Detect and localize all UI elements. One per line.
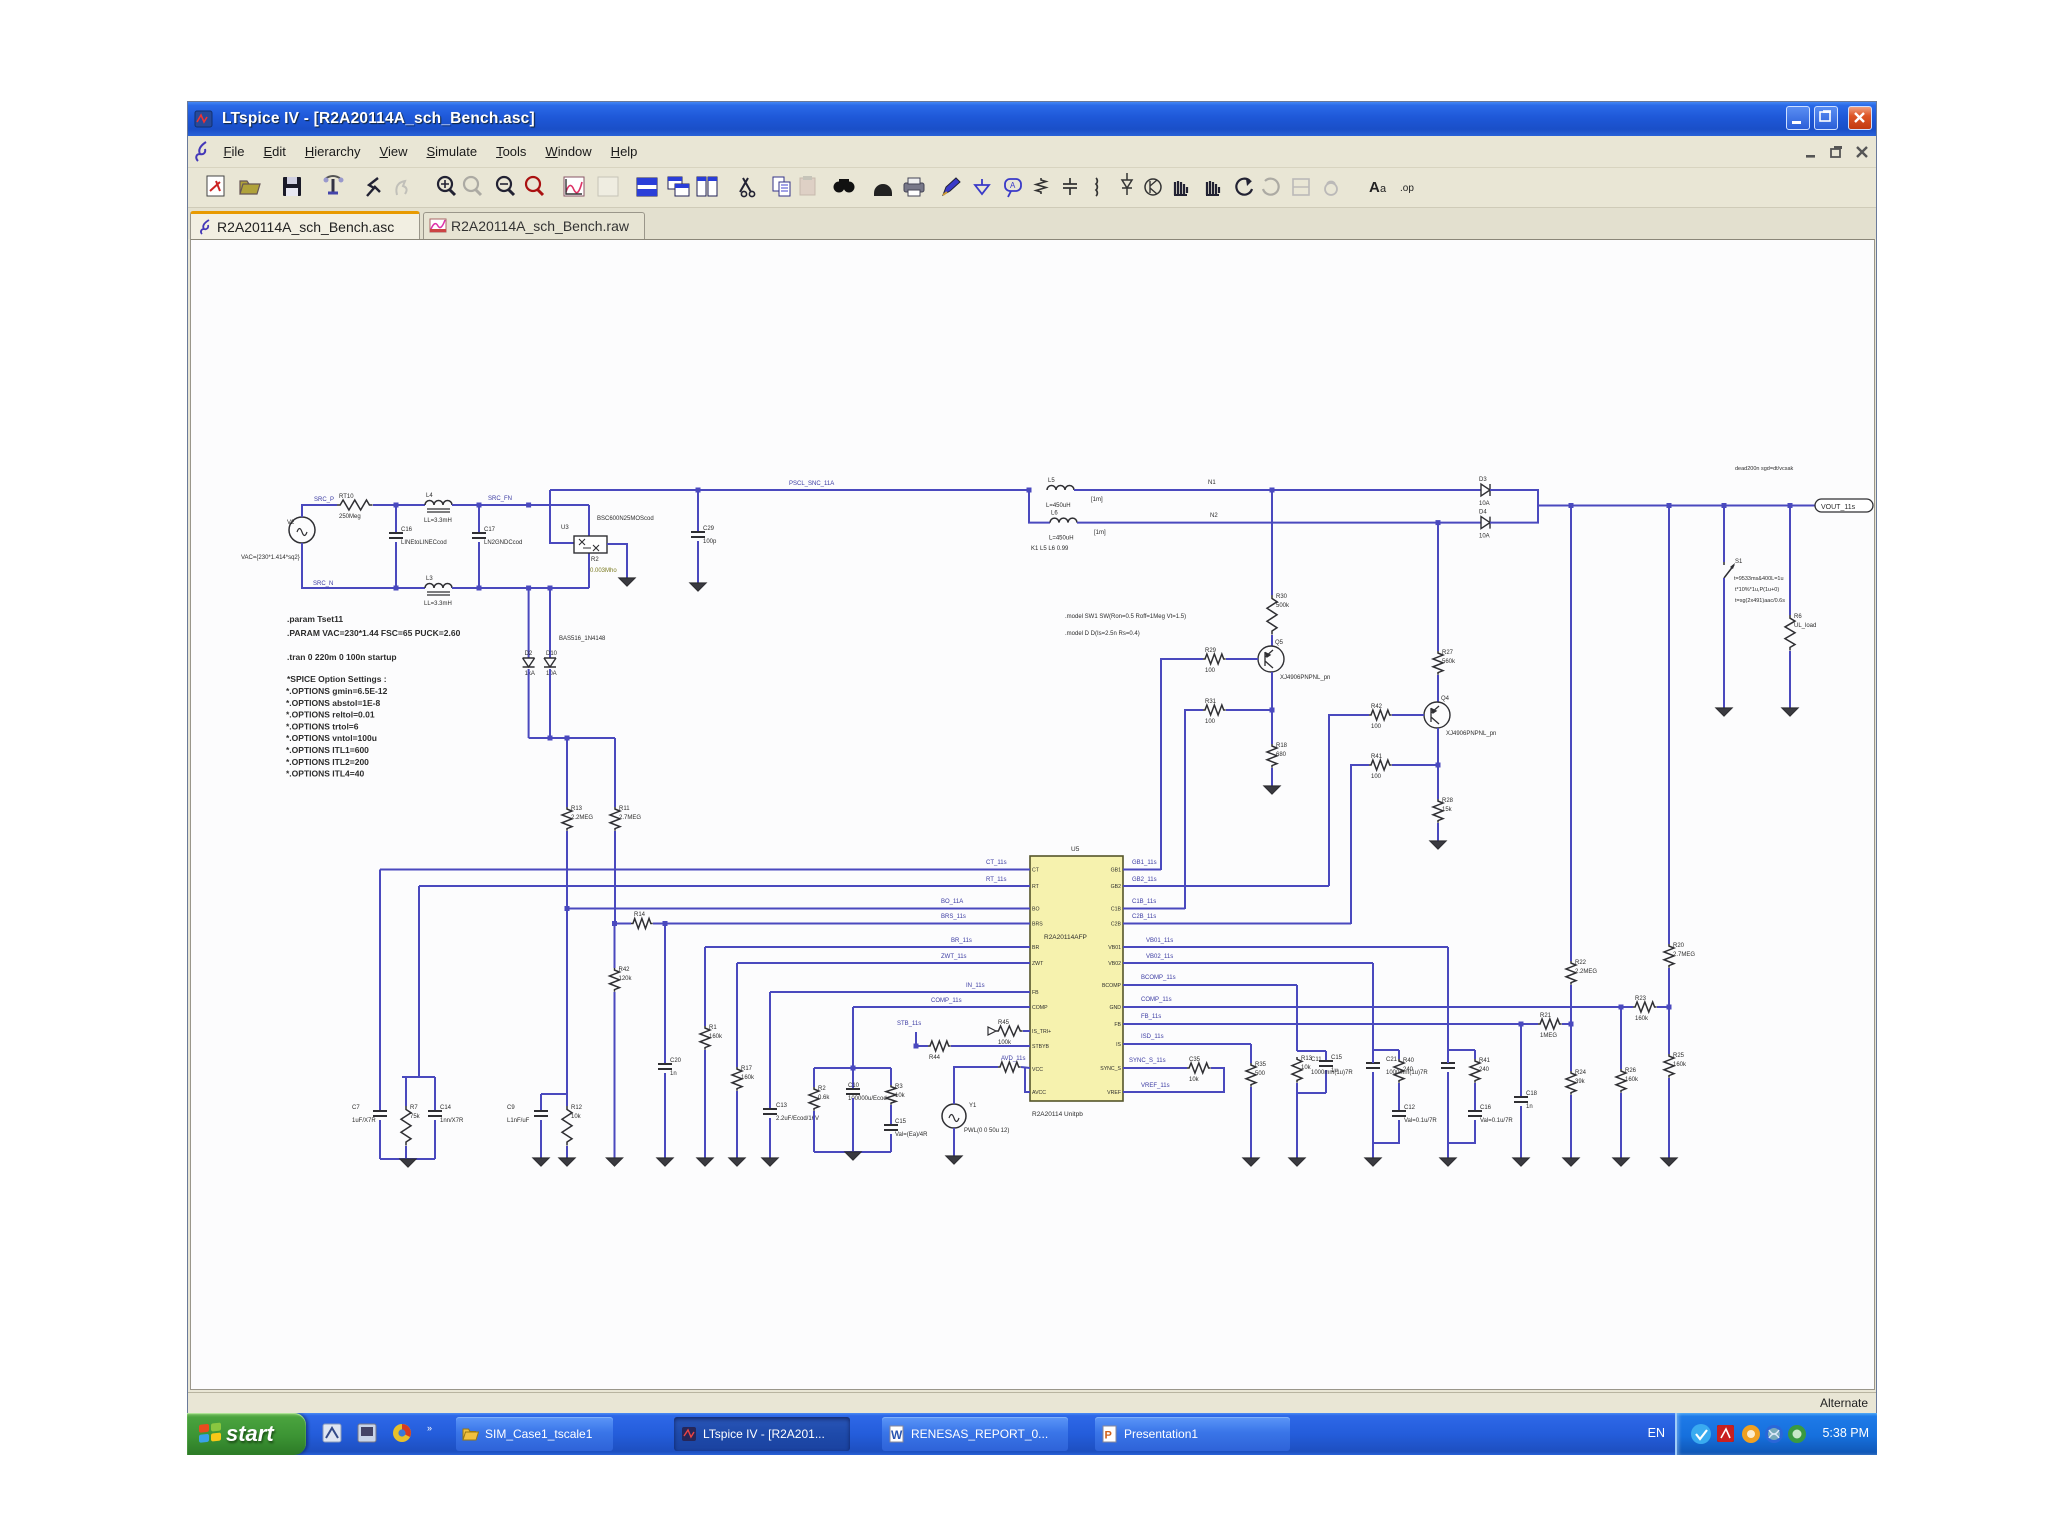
- capacitor C18: [1514, 1091, 1538, 1110]
- resistor R14: [631, 919, 653, 929]
- svg-text:*.OPTIONS gmin=6.5E-12: *.OPTIONS gmin=6.5E-12: [286, 686, 388, 696]
- wire R35 up: [1250, 1044, 1252, 1063]
- wire C7 riser: [379, 870, 381, 1112]
- node node FN: [526, 503, 531, 508]
- node n1668: [1667, 503, 1672, 508]
- wire RT row: [419, 885, 1030, 887]
- wire R30 up: [1271, 490, 1273, 595]
- resistor R32: [809, 1086, 830, 1111]
- wire S1 up: [1723, 506, 1725, 563]
- svg-text:COMP: COMP: [1032, 1005, 1048, 1011]
- svg-text:R27: R27: [1442, 650, 1454, 656]
- wire c11 dn: [1372, 1072, 1374, 1158]
- wire BRS b: [653, 923, 1030, 925]
- wire R45b up: [890, 1068, 892, 1085]
- node C16 bottom node: [394, 586, 399, 591]
- svg-text:2.7MEG: 2.7MEG: [619, 815, 641, 821]
- svg-text:C2B_11s: C2B_11s: [1132, 914, 1156, 920]
- svg-text:C13: C13: [776, 1103, 788, 1109]
- ground: [845, 1152, 861, 1160]
- svg-text:R42: R42: [619, 967, 631, 973]
- wire BR row: [705, 946, 1030, 948]
- capacitor C7: [352, 1105, 387, 1124]
- node join2: [565, 736, 570, 741]
- svg-text:2.2MEG: 2.2MEG: [571, 815, 593, 821]
- wire C14 dn: [434, 1120, 436, 1159]
- svg-text:1kA: 1kA: [525, 671, 535, 677]
- svg-text:D10: D10: [546, 651, 558, 657]
- wire gC top: [1448, 1049, 1475, 1051]
- svg-text:.model SW1 SW(Ron=0.5 Roff=1Me: .model SW1 SW(Ron=0.5 Roff=1Meg Vt=1.5): [1065, 614, 1186, 620]
- wire C15 dn2: [890, 1134, 892, 1152]
- svg-text:BRS_11s: BRS_11s: [941, 914, 966, 920]
- taskbar button SIM_Case1_tscale1: [456, 1417, 613, 1451]
- resistor R21: [1538, 1013, 1562, 1039]
- wire GB1 riser: [1161, 659, 1203, 870]
- resistor RL: [1785, 614, 1816, 651]
- wire Q5 emitter dn: [1271, 672, 1273, 710]
- svg-text:SRC_N: SRC_N: [313, 581, 333, 587]
- wire C20 dn: [664, 1073, 666, 1158]
- node R30 node: [1270, 488, 1275, 493]
- svg-text:W: W: [891, 1428, 903, 1442]
- ground: [946, 1156, 962, 1164]
- svg-text:680: 680: [1276, 752, 1287, 758]
- svg-text:STBYB: STBYB: [1032, 1044, 1050, 1050]
- wire to R28: [1437, 765, 1439, 799]
- wire c12 dn: [1373, 1120, 1399, 1143]
- wire IS row: [1123, 1043, 1251, 1045]
- capacitor C14: [428, 1105, 464, 1124]
- svg-text:VOUT_11s: VOUT_11s: [1821, 504, 1856, 511]
- svg-text:S1: S1: [1735, 559, 1743, 565]
- svg-text:Q4: Q4: [1441, 696, 1450, 702]
- svg-text:39k: 39k: [1575, 1079, 1586, 1085]
- wire R32 up: [813, 1068, 815, 1087]
- svg-text:15k: 15k: [1442, 807, 1453, 813]
- ground: [619, 578, 635, 586]
- svg-text:R6: R6: [1794, 614, 1802, 620]
- start button: [187, 1413, 306, 1455]
- svg-text:L4: L4: [426, 493, 433, 499]
- svg-text:1MEG: 1MEG: [1540, 1033, 1557, 1039]
- ground: [1613, 1158, 1629, 1166]
- svg-text:R18: R18: [1276, 743, 1288, 749]
- svg-text:BCOMP_11s: BCOMP_11s: [1141, 975, 1176, 981]
- node VOUT_11s flag: [1815, 499, 1873, 512]
- svg-text:A: A: [1010, 181, 1016, 190]
- transistor Q5: [1258, 640, 1330, 681]
- svg-text:L=450uH: L=450uH: [1049, 536, 1074, 542]
- wire D3 out: [1490, 490, 1538, 506]
- svg-text:*.OPTIONS ITL1=600: *.OPTIONS ITL1=600: [286, 745, 369, 755]
- node IS_TRI with marker: [988, 1027, 996, 1035]
- resistor R24: [1566, 1070, 1587, 1095]
- svg-text:100: 100: [1205, 719, 1216, 725]
- inductor L4 choke top: [424, 493, 452, 524]
- wire IN row: [770, 991, 1030, 993]
- wire R16z dn: [736, 1091, 738, 1158]
- wire v1570 lower: [1570, 1024, 1572, 1071]
- svg-text:Val=(Ea)/4R: Val=(Ea)/4R: [895, 1132, 928, 1138]
- ground: [559, 1158, 575, 1166]
- svg-text:R3: R3: [895, 1084, 903, 1090]
- wire R29 to Q5: [1226, 658, 1258, 660]
- svg-text:V2: V2: [287, 520, 295, 526]
- svg-text:SRC_P: SRC_P: [314, 497, 334, 503]
- svg-text:10A: 10A: [1479, 534, 1490, 540]
- wire grp top: [814, 1067, 891, 1069]
- svg-text:R22: R22: [1575, 960, 1587, 966]
- wire VOUT rail: [1538, 505, 1815, 507]
- wire FN down: [588, 505, 590, 588]
- wire r17 up: [1398, 1050, 1400, 1059]
- resistor R27: [1433, 650, 1456, 675]
- resistor R20: [1664, 943, 1695, 968]
- svg-text:SYNC_S_11s: SYNC_S_11s: [1129, 1058, 1166, 1064]
- svg-text:.op: .op: [1400, 183, 1414, 194]
- wire gA gnd wire: [1296, 1083, 1298, 1158]
- svg-text:VB02: VB02: [1108, 961, 1121, 967]
- wire gB top: [1373, 1049, 1399, 1051]
- resistor R23: [1633, 996, 1657, 1022]
- svg-text:ZWT_11s: ZWT_11s: [941, 954, 967, 960]
- wire c11 up: [1372, 1050, 1374, 1063]
- wire cA up: [1325, 1051, 1327, 1061]
- wire gA bot: [1297, 1092, 1326, 1094]
- svg-text:Y1: Y1: [969, 1103, 977, 1109]
- svg-text:CT_11s: CT_11s: [986, 860, 1007, 866]
- inductor L3 choke bottom: [424, 576, 452, 607]
- capacitor C13b: [1319, 1055, 1343, 1074]
- svg-text:PWL(0 0 50u 12): PWL(0 0 50u 12): [964, 1128, 1009, 1134]
- node BO jn: [565, 906, 570, 911]
- svg-text:R35: R35: [1255, 1062, 1267, 1068]
- resistor R45: [996, 1020, 1023, 1046]
- wire D10 dn: [549, 669, 551, 738]
- wire SYNC a: [1123, 1067, 1187, 1069]
- node grp jn: [851, 1066, 856, 1071]
- node diode D2 node: [526, 586, 531, 591]
- capacitor C16: [389, 527, 447, 546]
- ground: [762, 1158, 778, 1166]
- svg-text:C1B_11s: C1B_11s: [1132, 899, 1156, 905]
- resistor R30: [1267, 594, 1290, 635]
- wire STBYB a: [916, 1032, 928, 1046]
- svg-text:ISD_11s: ISD_11s: [1141, 1034, 1164, 1040]
- svg-text:*.OPTIONS trtol=6: *.OPTIONS trtol=6: [286, 721, 359, 731]
- wire R42 to Q4: [1392, 714, 1424, 716]
- capacitor C16b: [1468, 1105, 1513, 1124]
- wire to L6: [1029, 490, 1050, 523]
- svg-text:K1 L5 L6 0.99: K1 L5 L6 0.99: [1031, 546, 1069, 552]
- resistor R42b: [610, 967, 633, 992]
- svg-text:.model D D(Is=2.5n Rs=0.4): .model D D(Is=2.5n Rs=0.4): [1065, 631, 1140, 637]
- svg-text:1000mm(1u)7R: 1000mm(1u)7R: [1386, 1070, 1428, 1076]
- wire bottom rail right: [452, 587, 589, 589]
- svg-text:C16: C16: [401, 527, 413, 533]
- wire C9 up: [540, 1094, 542, 1111]
- svg-text:2.2MEG: 2.2MEG: [1575, 969, 1597, 975]
- svg-text:10A: 10A: [546, 671, 557, 677]
- ground: [1513, 1158, 1529, 1166]
- svg-text:t=9533ms&400L=1u: t=9533ms&400L=1u: [1734, 576, 1784, 582]
- svg-text:IN_11s: IN_11s: [966, 983, 985, 989]
- resistor R31: [1203, 699, 1226, 725]
- IC U5 R2A20114AFP: [1030, 846, 1123, 1118]
- svg-text:C18: C18: [1526, 1091, 1538, 1097]
- svg-text:L6: L6: [1051, 511, 1058, 517]
- svg-text:C11: C11: [1311, 1057, 1322, 1063]
- wire VB01 row: [1123, 946, 1448, 948]
- wire r26 up: [1620, 1007, 1622, 1069]
- svg-text:1n: 1n: [1526, 1104, 1533, 1110]
- wire c21 up: [1447, 1050, 1449, 1063]
- wire C9 dn: [540, 1120, 542, 1158]
- wire R11 dn to BRS: [614, 831, 616, 923]
- svg-text:C15: C15: [1331, 1055, 1343, 1061]
- wire RT10 to L4: [373, 504, 425, 506]
- wire C10 up: [852, 1068, 854, 1089]
- wire C1B row: [1123, 908, 1185, 910]
- svg-text:RT10: RT10: [339, 494, 354, 500]
- wire R15 up: [704, 947, 706, 1026]
- wire r21 out: [1562, 1023, 1571, 1025]
- wire R27 dn: [1437, 675, 1439, 702]
- node Q4 node: [1436, 763, 1441, 768]
- wire v1668 mid: [1668, 968, 1670, 1007]
- svg-text:BAS516_1N4148: BAS516_1N4148: [559, 636, 606, 642]
- wire D2 dn: [528, 669, 530, 738]
- svg-text:A: A: [1369, 179, 1380, 196]
- svg-text:75k: 75k: [410, 1114, 421, 1120]
- svg-text:VAC={230*1.414*sq2}: VAC={230*1.414*sq2}: [241, 555, 300, 561]
- wire c18 up: [1520, 1024, 1522, 1097]
- wire r19 dn: [1474, 1083, 1476, 1111]
- resistor R26: [1616, 1068, 1639, 1093]
- wire r23 out: [1657, 1006, 1669, 1008]
- svg-text:1n: 1n: [670, 1071, 677, 1077]
- wire R30 dn: [1271, 635, 1273, 646]
- svg-text:C14: C14: [440, 1105, 452, 1111]
- wire C20 up: [664, 924, 666, 1065]
- wire V2 top to RT10: [302, 505, 337, 517]
- svg-text:R21: R21: [1540, 1013, 1552, 1019]
- wire box top: [402, 1076, 435, 1078]
- wire Y1 top: [954, 1067, 998, 1104]
- inductor L5: [1046, 478, 1074, 509]
- svg-text:R41: R41: [1371, 754, 1383, 760]
- svg-text:560k: 560k: [1442, 659, 1456, 665]
- wire C7 dn: [379, 1120, 381, 1159]
- svg-text:C15: C15: [895, 1119, 907, 1125]
- resistor R44: [928, 1041, 951, 1051]
- resistor R7: [401, 1105, 421, 1146]
- svg-text:*.OPTIONS abstol=1E-8: *.OPTIONS abstol=1E-8: [286, 698, 381, 708]
- ground: [690, 583, 706, 591]
- svg-text:C17: C17: [484, 527, 496, 533]
- wire COMP row: [853, 1006, 1030, 1008]
- svg-text:C9: C9: [507, 1105, 515, 1111]
- wire GB1 row: [1123, 869, 1161, 871]
- wire Q4 emitter dn: [1437, 728, 1439, 765]
- svg-text:VREF_11s: VREF_11s: [1141, 1083, 1170, 1089]
- wire D2 up: [528, 588, 530, 658]
- svg-text:2.7MEG: 2.7MEG: [1673, 952, 1695, 958]
- resistor R17: [1394, 1058, 1415, 1083]
- svg-text:*.OPTIONS reltol=0.01: *.OPTIONS reltol=0.01: [286, 710, 375, 720]
- svg-text:0.003Mho: 0.003Mho: [590, 568, 617, 574]
- diode D2: [523, 651, 535, 677]
- svg-text:.tran 0 220m 0 100n startup: .tran 0 220m 0 100n startup: [287, 652, 397, 662]
- ground: [607, 1158, 623, 1166]
- resistor R19: [1470, 1058, 1491, 1083]
- resistor RT10: [337, 494, 373, 520]
- wire diode join: [529, 737, 615, 739]
- node r23 jn: [1619, 1005, 1624, 1010]
- resistor R15: [700, 1025, 723, 1050]
- node C29 node: [696, 488, 701, 493]
- wire comp riser: [852, 1007, 854, 1068]
- svg-text:C7: C7: [352, 1105, 360, 1111]
- wire BRS a: [615, 923, 632, 925]
- svg-text:BCOMP: BCOMP: [1102, 983, 1122, 989]
- resistor R16: [1292, 1056, 1313, 1083]
- capacitor C12: [1392, 1105, 1437, 1124]
- wire vb01 riser: [1447, 947, 1449, 1050]
- wire C16 up: [395, 505, 397, 533]
- wire R7 dn: [405, 1146, 407, 1159]
- wire C13 dn: [769, 1118, 771, 1158]
- svg-text:C29: C29: [703, 526, 715, 532]
- wire R35 dn: [1250, 1087, 1252, 1158]
- svg-text:R45: R45: [998, 1020, 1010, 1026]
- diode D10: [544, 651, 558, 677]
- svg-text:R7: R7: [410, 1105, 418, 1111]
- wire into U3: [550, 490, 574, 543]
- ground: [533, 1158, 549, 1166]
- wire r26 dn: [1620, 1093, 1622, 1158]
- resistor R22: [1566, 960, 1597, 985]
- wire GB2 riser: [1329, 715, 1369, 886]
- svg-text:AVCC: AVCC: [1032, 1090, 1046, 1096]
- svg-text:XJ4906PNPNL_pn: XJ4906PNPNL_pn: [1446, 731, 1496, 737]
- svg-text:VB01_11s: VB01_11s: [1146, 938, 1173, 944]
- mosfet block U3: [574, 536, 607, 553]
- svg-text:2.2uF/Ecod/16V: 2.2uF/Ecod/16V: [776, 1116, 819, 1122]
- svg-text:FB: FB: [1114, 1022, 1121, 1028]
- node L5 node: [1027, 488, 1032, 493]
- svg-text:SRC_FN: SRC_FN: [488, 496, 512, 502]
- ground: [657, 1158, 673, 1166]
- svg-text:250Meg: 250Meg: [339, 514, 361, 520]
- wire GND row: [1123, 1006, 1633, 1008]
- svg-text:160k: 160k: [1635, 1016, 1649, 1022]
- svg-text:C2B: C2B: [1111, 922, 1122, 928]
- svg-text:.param Tset11: .param Tset11: [287, 614, 343, 624]
- wire v1570 gnd: [1570, 1095, 1572, 1158]
- svg-text:10k: 10k: [895, 1093, 906, 1099]
- svg-text:U3: U3: [561, 525, 569, 531]
- taskbar button RENESAS_REPORT_0..: [882, 1417, 1068, 1451]
- svg-text:STB_11s: STB_11s: [897, 1021, 921, 1027]
- svg-text:BR: BR: [1032, 945, 1039, 951]
- svg-text:GB2_11s: GB2_11s: [1132, 877, 1157, 883]
- svg-text:LL=3.3mH: LL=3.3mH: [424, 601, 452, 607]
- svg-text:100: 100: [1371, 724, 1382, 730]
- wire R27 up: [1437, 523, 1439, 651]
- resistor R8: [998, 1062, 1021, 1072]
- resistor R12: [562, 1105, 583, 1146]
- wire C9 jog: [541, 1093, 567, 1095]
- svg-text:Q5: Q5: [1275, 640, 1284, 646]
- svg-text:CT: CT: [1032, 868, 1040, 874]
- svg-text:PSCL_SNC_11A: PSCL_SNC_11A: [789, 481, 834, 487]
- svg-text:VB02_11s: VB02_11s: [1146, 954, 1173, 960]
- svg-text:COMP_11s: COMP_11s: [931, 998, 962, 1004]
- svg-text:R26: R26: [1625, 1068, 1637, 1074]
- svg-text:BO_11A: BO_11A: [941, 899, 963, 905]
- wire to R18: [1271, 710, 1273, 744]
- svg-text:R24: R24: [1575, 1070, 1587, 1076]
- svg-text:GB1_11s: GB1_11s: [1132, 860, 1157, 866]
- wire grp bottom: [814, 1151, 891, 1153]
- ground: [697, 1158, 713, 1166]
- wire R28 dn: [1437, 823, 1439, 841]
- svg-text:*.OPTIONS ITL4=40: *.OPTIONS ITL4=40: [286, 769, 364, 779]
- wire GB2 row: [1123, 885, 1329, 887]
- svg-text:LN2GNDCcod: LN2GNDCcod: [484, 540, 522, 546]
- node SRC_P node: [394, 503, 399, 508]
- node n1789: [1788, 503, 1793, 508]
- svg-text:LINEtoLINECcod: LINEtoLINECcod: [401, 540, 447, 546]
- quick launch: [319, 1421, 449, 1447]
- svg-text:L3: L3: [426, 576, 433, 582]
- svg-text:C20: C20: [670, 1058, 682, 1064]
- wire R42b dn: [614, 992, 616, 1158]
- svg-text:R29: R29: [1205, 648, 1217, 654]
- svg-text:C10: C10: [848, 1083, 860, 1089]
- node FB node: [1569, 1022, 1574, 1027]
- svg-text:C35: C35: [1189, 1057, 1201, 1063]
- wire R18 dn: [1271, 768, 1273, 786]
- svg-text:100: 100: [1371, 774, 1382, 780]
- svg-text:t=sg(2x491)aac/0.6s: t=sg(2x491)aac/0.6s: [1735, 598, 1785, 604]
- node n1723: [1722, 503, 1727, 508]
- svg-text:D3: D3: [1479, 477, 1487, 483]
- wire L4 to corner: [452, 504, 589, 506]
- capacitor C10: [846, 1083, 887, 1102]
- capacitor C21: [1386, 1057, 1455, 1076]
- svg-text:0.6k: 0.6k: [818, 1095, 830, 1101]
- node Q5 node: [1270, 708, 1275, 713]
- ground: [1365, 1158, 1381, 1166]
- svg-text:Val=0.1u/7R: Val=0.1u/7R: [1404, 1118, 1437, 1124]
- wire RL dn: [1789, 651, 1791, 708]
- resistor R35: [1246, 1062, 1267, 1087]
- svg-text:R2: R2: [591, 557, 599, 563]
- svg-text:GND: GND: [1109, 1005, 1121, 1011]
- wire R11 up: [614, 738, 616, 807]
- wire C10 dn: [852, 1098, 854, 1152]
- svg-text:*.OPTIONS ITL2=200: *.OPTIONS ITL2=200: [286, 757, 369, 767]
- wire N2 row: [1077, 522, 1481, 524]
- resistor R41: [1369, 754, 1392, 780]
- svg-text:L=450uH: L=450uH: [1046, 503, 1071, 509]
- svg-text:a: a: [1380, 183, 1387, 195]
- node stb jn: [914, 1044, 919, 1049]
- wire R16z up: [736, 963, 738, 1067]
